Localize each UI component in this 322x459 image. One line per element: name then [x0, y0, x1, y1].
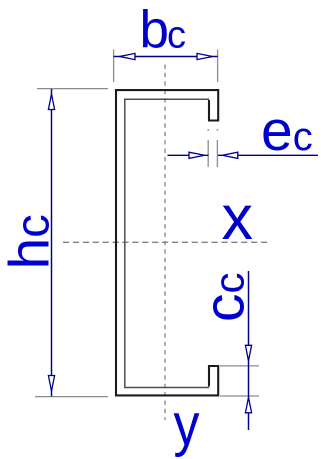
extension line ec left	[207, 140, 209, 167]
arrowhead hc bottom	[48, 376, 54, 392]
extension line bc left	[113, 50, 115, 83]
dimension line cc	[248, 271, 250, 430]
arrowhead bc right	[197, 53, 213, 59]
extension line cc bottom	[220, 395, 259, 397]
dimension line ec right tail	[218, 154, 318, 156]
extension dot ec right	[217, 129, 219, 131]
arrowhead bc left	[120, 53, 136, 59]
dimension line hc	[51, 89, 53, 396]
svg-text:x: x	[222, 183, 254, 253]
arrowhead cc upper	[245, 345, 251, 361]
svg-text:y: y	[174, 391, 200, 457]
centerline y-axis vertical dashed	[164, 65, 166, 421]
extension line ec right	[216, 140, 218, 167]
extension line cc top	[220, 365, 259, 367]
extension line hc top	[37, 88, 108, 90]
arrowhead hc top	[48, 94, 54, 110]
profile inner outline	[125, 99, 209, 387]
dimension line bc	[114, 56, 218, 58]
extension line bc right	[217, 50, 219, 83]
extension dot ec left	[208, 129, 210, 131]
profile outer outline	[116, 90, 218, 395]
arrowhead ec left	[189, 152, 205, 158]
arrowhead ec right	[222, 152, 238, 158]
svg-text:hc: hc	[0, 214, 62, 269]
arrowhead cc lower	[245, 398, 251, 413]
extension line hc bottom	[35, 396, 108, 398]
centerline x-axis horizontal dashed	[63, 241, 269, 243]
dimension line ec left tail	[168, 154, 209, 156]
